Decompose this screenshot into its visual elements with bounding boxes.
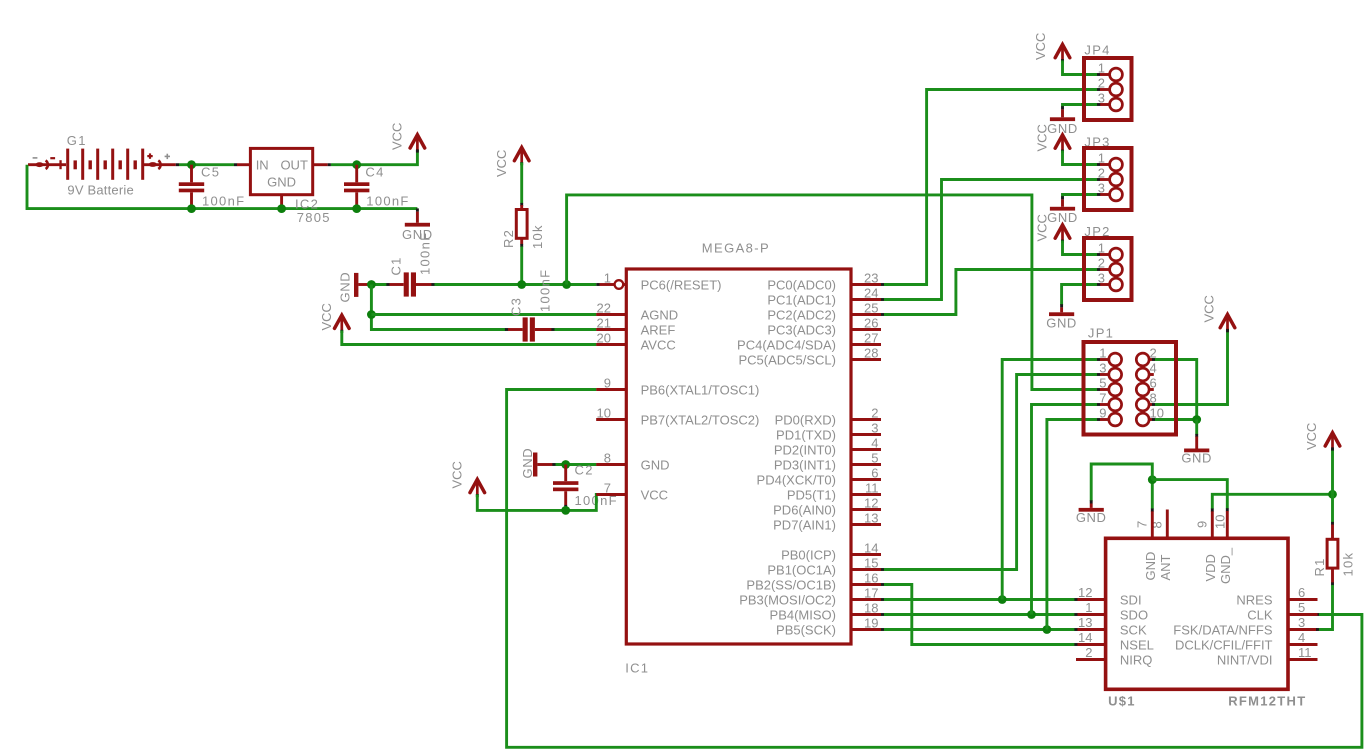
- svg-text:GND: GND: [1076, 510, 1107, 525]
- svg-text:12: 12: [1078, 585, 1092, 600]
- svg-text:10k: 10k: [530, 224, 545, 249]
- svg-text:7: 7: [1135, 521, 1150, 528]
- svg-text:6: 6: [1150, 376, 1157, 391]
- IC1 left pin 22 stub: [596, 313, 626, 316]
- svg-text:NSEL: NSEL: [1120, 637, 1154, 652]
- svg-text:GND: GND: [1046, 316, 1077, 331]
- wire JP1 pin 8 to VCC: [1149, 403, 1152, 406]
- wire IC2 OUT to VCC: [313, 163, 328, 166]
- U$1 right pin 11 stub and number: [1288, 658, 1318, 661]
- svg-text:PB2(SS/OC1B): PB2(SS/OC1B): [746, 577, 836, 592]
- svg-text:PC4(ADC4/SDA): PC4(ADC4/SDA): [737, 337, 836, 352]
- svg-text:PC2(ADC2): PC2(ADC2): [767, 307, 836, 322]
- svg-text:10: 10: [1213, 515, 1228, 529]
- svg-text:PC0(ADC0): PC0(ADC0): [767, 277, 836, 292]
- JP2 pin 3 circle and number: [1110, 278, 1123, 291]
- junction RESET riser to JP1.5: [562, 280, 571, 289]
- junction C2 bottom on VCC run: [561, 506, 570, 515]
- svg-text:2: 2: [1098, 256, 1105, 271]
- junction AGND branch: [367, 310, 376, 319]
- ground symbol at JP2: [1049, 312, 1074, 316]
- junction GND/C1/AGND: [367, 280, 376, 289]
- svg-text:5: 5: [1099, 376, 1106, 391]
- svg-text:3: 3: [1298, 615, 1305, 630]
- svg-text:VCC: VCC: [319, 303, 334, 330]
- svg-text:2: 2: [1085, 645, 1092, 660]
- svg-text:7: 7: [1099, 391, 1106, 406]
- svg-text:PD5(T1): PD5(T1): [787, 487, 836, 502]
- svg-text:VCC: VCC: [1035, 124, 1050, 151]
- U$1 right pin 6 stub and number: [1288, 598, 1318, 601]
- ground symbol at JP1: [1195, 420, 1198, 435]
- svg-text:IN: IN: [256, 157, 269, 172]
- junction R2 bottom on RESET line: [517, 280, 526, 289]
- svg-text:1: 1: [604, 270, 611, 285]
- svg-text:18: 18: [864, 600, 878, 615]
- svg-text:C5: C5: [201, 165, 220, 180]
- ground symbol at JP3: [1050, 207, 1075, 211]
- wire RESET net: GND stub to C1 to R2 to pin1: [370, 283, 387, 286]
- svg-text:7805: 7805: [297, 210, 331, 225]
- svg-text:17: 17: [864, 585, 878, 600]
- wire VCC to JP2 pin 1: [1063, 241, 1098, 255]
- svg-text:3: 3: [871, 420, 878, 435]
- JP4 pin 3 circle and number: [1110, 98, 1123, 111]
- voltage regulator IC2 7805 body: [250, 148, 312, 194]
- wire PB2 to RFM12 NSEL: [881, 583, 884, 586]
- power symbol VCC at JP3: [1055, 135, 1070, 148]
- JP1 pin 4 circle and number: [1136, 368, 1149, 381]
- RFM12 pin 8 ANT stub: [1166, 510, 1169, 539]
- svg-text:SDO: SDO: [1120, 607, 1148, 622]
- svg-text:VCC: VCC: [1202, 295, 1217, 322]
- wire RESET to MEGA8 pin 1 with inversion bubble: [596, 283, 599, 286]
- battery G1 cells: [66, 149, 69, 180]
- wire RFM12 pin7 GND net: [1151, 511, 1154, 538]
- ground symbol main rail GND: [416, 208, 419, 211]
- wire RESET to JP1 pin 5: [567, 195, 1097, 390]
- IC1 pin 18 stub and number: [851, 613, 881, 616]
- svg-text:26: 26: [864, 315, 878, 330]
- junction OUT C4: [352, 160, 361, 169]
- svg-text:SCK: SCK: [1120, 622, 1147, 637]
- junction C2 top: [561, 460, 570, 469]
- junction VCC R1 VDD: [1328, 490, 1337, 499]
- svg-text:6: 6: [1298, 585, 1305, 600]
- svg-text:VCC: VCC: [1035, 214, 1050, 241]
- capacitor C4: [355, 165, 358, 183]
- svg-text:19: 19: [864, 615, 878, 630]
- IC1 left pin 10 stub: [596, 418, 626, 421]
- IC1 pin 2 stub and number: [851, 418, 881, 421]
- JP3 pin 2 circle and number: [1110, 173, 1123, 186]
- svg-text:14: 14: [864, 540, 878, 555]
- svg-text:PB1(OC1A): PB1(OC1A): [767, 562, 836, 577]
- svg-text:PD0(RXD): PD0(RXD): [775, 412, 836, 427]
- junction C5 ground rail: [187, 204, 196, 213]
- wire GND net to pin 10: [1152, 480, 1227, 509]
- JP1 pin 7 circle and number: [1109, 398, 1122, 411]
- JP3 pin 1 circle and number: [1110, 158, 1123, 171]
- IC1 pin 6 stub and number: [851, 478, 881, 481]
- battery G1 positive terminal clamp: [143, 163, 176, 166]
- svg-text:GND: GND: [267, 174, 296, 189]
- JP1 pin 1 circle and number: [1109, 353, 1122, 366]
- svg-text:RFM12THT: RFM12THT: [1228, 694, 1306, 709]
- capacitor C2: [564, 465, 567, 482]
- svg-text:9: 9: [1099, 406, 1106, 421]
- svg-text:14: 14: [1078, 630, 1092, 645]
- svg-text:3: 3: [1099, 361, 1106, 376]
- power symbol VCC main: [410, 135, 425, 148]
- JP4 pin 2 circle and number: [1110, 83, 1123, 96]
- IC1 pin 12 stub and number: [851, 508, 881, 511]
- resistor R1 10k: [1331, 494, 1334, 522]
- IC1 left pin 7 stub: [596, 493, 626, 496]
- svg-text:FSK/DATA/NFFS: FSK/DATA/NFFS: [1173, 622, 1273, 637]
- svg-text:4: 4: [1150, 361, 1157, 376]
- svg-text:MEGA8-P: MEGA8-P: [702, 241, 770, 256]
- svg-text:100nF: 100nF: [202, 194, 245, 209]
- svg-text:G1: G1: [67, 133, 87, 148]
- MEGA8 pin 10 stub PB7: [596, 418, 626, 421]
- ground symbol at C2 (rotated): [533, 453, 537, 477]
- svg-text:GND: GND: [338, 272, 353, 303]
- svg-text:PD7(AIN1): PD7(AIN1): [773, 517, 836, 532]
- ground symbol left of RFM12: [1079, 508, 1104, 512]
- junction IC2 GND ground rail: [277, 204, 286, 213]
- IC1 left pin 20 stub: [596, 343, 626, 346]
- junction JP1 GND: [1192, 415, 1201, 424]
- wire R1 bottom to RFM12 FSK pin 3: [1319, 585, 1333, 630]
- JP2 pin 1 circle and number: [1110, 248, 1123, 261]
- svg-text:NIRQ: NIRQ: [1120, 652, 1153, 667]
- wire MEGA8 pin 8 GND to C2: [552, 463, 555, 466]
- svg-text:C4: C4: [365, 165, 384, 180]
- svg-text:VCC: VCC: [449, 461, 464, 488]
- junction RFM GND net: [1148, 475, 1157, 484]
- svg-text:6: 6: [871, 465, 878, 480]
- svg-text:12: 12: [864, 495, 878, 510]
- svg-text:PB7(XTAL2/TOSC2): PB7(XTAL2/TOSC2): [641, 412, 760, 427]
- power symbol VCC at MEGA8 VCC pin 7: [470, 479, 485, 492]
- wire battery minus to ground rail: [27, 165, 417, 209]
- battery G1 negative terminal clamp: [28, 163, 66, 166]
- svg-text:AGND: AGND: [641, 307, 679, 322]
- svg-text:AREF: AREF: [641, 322, 676, 337]
- svg-text:SDI: SDI: [1120, 592, 1142, 607]
- capacitor C5: [190, 165, 193, 183]
- svg-text:GND_: GND_: [1218, 547, 1233, 584]
- wire GND net to ground symbol: [1091, 464, 1152, 501]
- svg-text:100nF: 100nF: [538, 269, 553, 312]
- svg-text:1: 1: [1085, 600, 1092, 615]
- svg-text:16: 16: [864, 570, 878, 585]
- IC1 pin 17 stub and number: [851, 598, 881, 601]
- svg-text:27: 27: [864, 330, 878, 345]
- svg-text:C3: C3: [509, 297, 524, 316]
- svg-text:100nF: 100nF: [366, 194, 409, 209]
- svg-text:PC5(ADC5/SCL): PC5(ADC5/SCL): [738, 352, 836, 367]
- IC1 pin 27 stub and number: [851, 343, 881, 346]
- resistor R2 10k with VCC: [514, 148, 529, 161]
- svg-text:NINT/VDI: NINT/VDI: [1217, 652, 1273, 667]
- wire PC0 to JP4 pin 2: [881, 283, 884, 286]
- microcontroller IC1 MEGA8-P body: [626, 269, 851, 644]
- svg-text:13: 13: [1078, 615, 1092, 630]
- JP1 pin 3 circle and number: [1109, 368, 1122, 381]
- svg-text:15: 15: [864, 555, 878, 570]
- svg-text:5: 5: [871, 450, 878, 465]
- JP1 pin 5 circle and number: [1109, 383, 1122, 396]
- svg-text:PB5(SCK): PB5(SCK): [776, 622, 836, 637]
- svg-text:GND: GND: [1181, 451, 1212, 466]
- wire PB4/MISO to RFM12 SDO and JP1 pin 7: [881, 613, 884, 616]
- wire PC2 to JP2 pin 2: [881, 313, 884, 316]
- svg-text:VCC: VCC: [494, 150, 509, 177]
- svg-text:C1: C1: [389, 256, 404, 275]
- svg-text:100nF: 100nF: [418, 232, 433, 275]
- IC1 pin 3 stub and number: [851, 433, 881, 436]
- svg-text:PB3(MOSI/OC2): PB3(MOSI/OC2): [739, 592, 836, 607]
- wire JP1 pin 2 to GND junction: [1149, 358, 1152, 361]
- capacitor C3 on AREF line: [505, 328, 508, 331]
- svg-text:R2: R2: [501, 229, 516, 248]
- IC1 pin 16 stub and number: [851, 583, 881, 586]
- svg-text:5: 5: [1298, 600, 1305, 615]
- svg-text:13: 13: [864, 510, 878, 525]
- IC1 pin 23 stub and number: [851, 283, 881, 286]
- svg-text:AVCC: AVCC: [641, 337, 676, 352]
- power symbol VCC at AVCC: [335, 315, 350, 328]
- wire JP3 pin 3 to GND: [1100, 193, 1109, 196]
- svg-text:2: 2: [1098, 76, 1105, 91]
- wire PC1 to JP3 pin 2: [881, 298, 884, 301]
- wire PB5/SCK to RFM12 SCK and JP1 pin 9: [881, 628, 884, 631]
- svg-text:2: 2: [871, 405, 878, 420]
- JP4 pin 1 circle and number: [1110, 68, 1123, 81]
- svg-text:PD4(XCK/T0): PD4(XCK/T0): [757, 472, 836, 487]
- IC1 pin 19 stub and number: [851, 628, 881, 631]
- IC1 pin 25 stub and number: [851, 313, 881, 316]
- svg-text:11: 11: [1298, 645, 1312, 660]
- IC1 pin 24 stub and number: [851, 298, 881, 301]
- svg-text:OUT: OUT: [280, 157, 308, 172]
- svg-text:28: 28: [864, 345, 878, 360]
- svg-text:U$1: U$1: [1108, 694, 1136, 709]
- junction C4 ground rail: [352, 204, 361, 213]
- svg-text:VCC: VCC: [390, 123, 405, 150]
- svg-text:JP4: JP4: [1084, 43, 1110, 58]
- svg-text:4: 4: [1298, 630, 1305, 645]
- svg-text:10k: 10k: [1341, 552, 1356, 577]
- IC1 left pin 9 stub: [596, 388, 626, 391]
- JP1 pin 10 circle and number: [1136, 413, 1149, 426]
- U$1 right pin 4 stub and number: [1288, 643, 1318, 646]
- RFM12 NIRQ stub: [1076, 658, 1106, 661]
- wire PB1 to JP1 pin 3: [881, 568, 884, 571]
- svg-text:PD1(TXD): PD1(TXD): [776, 427, 836, 442]
- IC1 pin 14 stub and number: [851, 553, 881, 556]
- IC1 pin 11 stub and number: [851, 493, 881, 496]
- wire PB6/XTAL1 to RFM12 CLK (long bottom run): [600, 388, 627, 391]
- IC1 pin 5 stub and number: [851, 463, 881, 466]
- wire JP4 pin 3 to GND: [1100, 103, 1109, 106]
- wire VCC pin 7 run: [477, 495, 599, 511]
- svg-text:9V Batterie: 9V Batterie: [67, 183, 134, 198]
- svg-text:PC3(ADC3): PC3(ADC3): [767, 322, 836, 337]
- IC1 left pin 8 stub: [596, 463, 626, 466]
- JP1 pin 2 circle and number: [1136, 353, 1149, 366]
- svg-text:PB4(MISO): PB4(MISO): [770, 607, 836, 622]
- svg-text:C2: C2: [575, 463, 594, 478]
- wire AGND net vertical from C1 junction: [371, 285, 505, 330]
- svg-text:24: 24: [864, 285, 878, 300]
- svg-text:11: 11: [865, 480, 879, 495]
- power symbol VCC at JP2: [1055, 225, 1070, 238]
- svg-text:DCLK/CFIL/FFIT: DCLK/CFIL/FFIT: [1175, 637, 1273, 652]
- wire JP2 pin 3 to GND: [1100, 283, 1109, 286]
- svg-text:9: 9: [1195, 521, 1210, 528]
- wire PB3/MOSI to RFM12 SDI and JP1 pin 1: [881, 598, 884, 601]
- JP1 pin 9 circle and number: [1109, 413, 1122, 426]
- ground symbol at JP4: [1050, 117, 1075, 121]
- wire RFM12 VDD pin 9 to VCC: [1211, 511, 1214, 538]
- svg-text:PD6(AIN0): PD6(AIN0): [773, 502, 836, 517]
- wire AGND to MEGA8 pin 22: [371, 313, 596, 316]
- svg-text:PB0(ICP): PB0(ICP): [781, 547, 836, 562]
- U$1 right pin 3 stub and number: [1288, 628, 1318, 631]
- svg-text:23: 23: [864, 270, 878, 285]
- JP2 pin 2 circle and number: [1110, 263, 1123, 276]
- svg-text:GND: GND: [1143, 552, 1158, 581]
- wire VCC to JP4 pin 1: [1063, 61, 1098, 75]
- svg-text:GND: GND: [520, 448, 535, 479]
- IC1 pin 4 stub and number: [851, 448, 881, 451]
- svg-text:VCC: VCC: [641, 487, 668, 502]
- JP1 pin 8 circle and number: [1136, 398, 1149, 411]
- svg-text:4: 4: [871, 435, 878, 450]
- svg-text:ANT: ANT: [1158, 554, 1173, 580]
- ground symbol at C1 (rotated): [354, 273, 358, 297]
- IC1 pin 26 stub and number: [851, 328, 881, 331]
- power symbol VCC at JP4: [1055, 45, 1070, 58]
- svg-text:PB6(XTAL1/TOSC1): PB6(XTAL1/TOSC1): [641, 382, 760, 397]
- IC1 pin 28 stub and number: [851, 358, 881, 361]
- JP3 pin 3 circle and number: [1110, 188, 1123, 201]
- svg-text:PC1(ADC1): PC1(ADC1): [767, 292, 836, 307]
- svg-text:JP1: JP1: [1088, 326, 1114, 341]
- wire AVCC to MEGA8 pin 20: [342, 331, 597, 345]
- svg-text:PC6(/RESET): PC6(/RESET): [641, 277, 722, 292]
- svg-text:25: 25: [864, 300, 878, 315]
- IC1 pin 15 stub and number: [851, 568, 881, 571]
- svg-text:IC1: IC1: [625, 661, 649, 676]
- power symbol VCC at R1: [1331, 449, 1334, 495]
- svg-text:PD2(INT0): PD2(INT0): [774, 442, 836, 457]
- svg-text:NRES: NRES: [1236, 592, 1272, 607]
- svg-text:R1: R1: [1312, 557, 1327, 576]
- power symbol VCC at JP1 pin 8: [1220, 315, 1235, 328]
- wire battery plus to IC2 IN: [176, 163, 179, 166]
- junction battery+ C5: [187, 160, 196, 169]
- svg-text:VDD: VDD: [1203, 554, 1218, 581]
- svg-text:VCC: VCC: [1033, 33, 1048, 60]
- wire VCC to JP3 pin 1: [1063, 151, 1098, 165]
- JP1 pin 6 circle and number: [1136, 383, 1149, 396]
- svg-text:VCC: VCC: [1304, 423, 1319, 450]
- svg-text:1: 1: [1099, 346, 1106, 361]
- svg-text:CLK: CLK: [1247, 607, 1273, 622]
- radio module U$1 RFM12THT body: [1106, 538, 1288, 689]
- capacitor C1: [386, 283, 389, 286]
- svg-text:2: 2: [1098, 166, 1105, 181]
- U$1 right pin 5 stub and number: [1288, 613, 1318, 616]
- svg-text:PD3(INT1): PD3(INT1): [774, 457, 836, 472]
- svg-text:GND: GND: [641, 457, 670, 472]
- IC1 left pin 21 stub: [596, 328, 626, 331]
- wire JP1 pin 10 to GND junction: [1149, 418, 1152, 421]
- IC1 pin 13 stub and number: [851, 523, 881, 526]
